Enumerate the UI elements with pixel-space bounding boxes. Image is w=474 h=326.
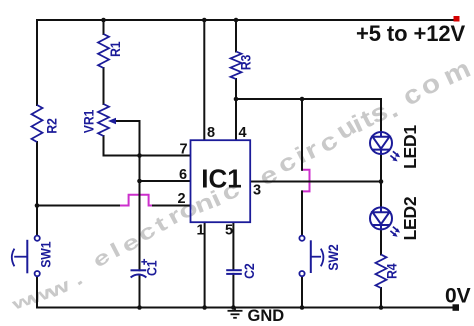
wire pin 2 left black segment (37, 205, 119, 207)
svg-text:R2: R2 (44, 118, 60, 133)
resistor R2 (32, 105, 43, 142)
svg-text:R3: R3 (238, 55, 254, 70)
svg-text:C2: C2 (241, 264, 257, 279)
wire left rail middle (R2 bottom to pin2 node to SW1) (36, 142, 38, 236)
svg-text:1: 1 (196, 223, 204, 239)
svg-text:LED1: LED1 (400, 125, 420, 169)
wire R4 bottom lead (380, 288, 382, 308)
svg-text:C1: C1 (144, 261, 160, 276)
LED1 light arrows (390, 151, 400, 161)
wire pin 5 to C2 (232, 222, 234, 269)
switch SW1 (12, 236, 40, 277)
wire pin2 hop-over (pink) (118, 195, 154, 206)
wire VR1 bottom to pin 7 (104, 136, 191, 156)
svg-text:R4: R4 (384, 263, 400, 279)
potentiometer VR1 (98, 104, 140, 136)
wire R3 top lead (235, 20, 237, 52)
svg-text:3: 3 (253, 182, 261, 198)
svg-text:SW1: SW1 (38, 242, 54, 268)
wire left rail lower (SW1 bottom to 0V rail) (36, 276, 38, 307)
wire bottom 0V rail (37, 307, 453, 309)
wire wiper vertical down to C1 (139, 121, 141, 270)
capacitor C2 (226, 270, 242, 274)
wire pin3 node to LED2 (380, 182, 382, 208)
wire R3 bottom to pin 4 (235, 79, 237, 140)
wire node99 horizontal (236, 98, 381, 100)
svg-text:4: 4 (238, 125, 246, 141)
wire LED2 to R4 (380, 229, 382, 254)
switch SW2 (299, 236, 323, 277)
wire VR1 wiper to vertical node (112, 120, 140, 122)
resistor R3 (231, 52, 242, 80)
wire C2 to rail (232, 274, 234, 308)
svg-text:5: 5 (225, 223, 233, 239)
resistor R1 (98, 34, 109, 68)
svg-text:R1: R1 (107, 42, 123, 57)
svg-text:7: 7 (179, 142, 187, 158)
svg-text:0V: 0V (445, 285, 471, 308)
wire pin 8 to top rail (203, 20, 205, 140)
+V terminal (red square) (454, 16, 460, 22)
wire LED1 top lead (380, 99, 382, 132)
wire C1 bottom lead (139, 275, 141, 308)
wire R1 top lead (103, 20, 105, 34)
wire SW2 bottom to rail (301, 276, 303, 307)
wire pin 3 output (250, 181, 381, 183)
LED2 light arrows (390, 227, 400, 237)
svg-text:6: 6 (179, 167, 187, 183)
svg-text:+5 to +12V: +5 to +12V (356, 21, 465, 46)
watermark www.electronicecircuits.com (9, 54, 474, 314)
wire SW2 jog (pink) (302, 170, 310, 192)
svg-text:8: 8 (207, 125, 215, 141)
capacitor C1 (polarized) (131, 270, 147, 277)
wire pin 6 (140, 180, 191, 182)
svg-text:VR1: VR1 (81, 110, 97, 133)
LED2 (370, 207, 392, 229)
ground symbol (228, 308, 243, 318)
wire left rail upper (36, 20, 38, 105)
wire pin 2 right black segment (153, 205, 191, 207)
svg-text:SW2: SW2 (325, 244, 341, 270)
VR1 wiper arrowhead (108, 118, 116, 124)
wire pin 1 to rail (204, 222, 206, 307)
IC1 555 box (191, 140, 251, 222)
wire SW2 column mid (301, 191, 303, 235)
wire LED1 to pin3 node (380, 154, 382, 182)
wire top power rail +V (37, 19, 456, 21)
svg-text:LED2: LED2 (400, 196, 420, 240)
C1 plus sign (141, 259, 147, 265)
wire R1 to VR1 (103, 68, 105, 104)
resistor R4 (376, 255, 387, 289)
svg-text:GND: GND (248, 307, 285, 325)
wire SW2 column upper (301, 99, 303, 170)
0V terminal (black square) (453, 304, 460, 311)
LED1 (370, 132, 392, 154)
